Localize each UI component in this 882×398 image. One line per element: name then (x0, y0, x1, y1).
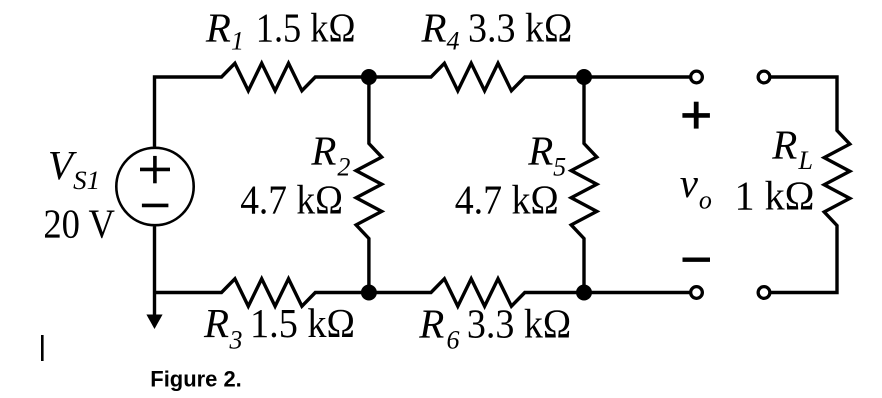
svg-text:1.5 kΩ: 1.5 kΩ (250, 300, 355, 346)
svg-text:S1: S1 (73, 166, 100, 195)
svg-text:R: R (203, 300, 229, 346)
svg-text:1.5 kΩ: 1.5 kΩ (256, 4, 356, 50)
svg-text:R: R (310, 127, 336, 173)
svg-text:20 V: 20 V (43, 201, 115, 247)
svg-text:v: v (680, 160, 699, 206)
svg-text:6: 6 (447, 325, 460, 354)
svg-text:R: R (421, 4, 447, 50)
svg-text:o: o (699, 186, 712, 215)
svg-text:R: R (205, 4, 231, 50)
svg-text:1: 1 (231, 27, 244, 56)
svg-text:4: 4 (447, 27, 460, 56)
svg-text:4.7 kΩ: 4.7 kΩ (240, 177, 343, 223)
svg-text:4.7 kΩ: 4.7 kΩ (455, 177, 559, 223)
svg-text:Figure 2.: Figure 2. (150, 367, 242, 392)
svg-text:R: R (418, 301, 444, 347)
svg-text:R: R (771, 121, 797, 167)
svg-text:L: L (798, 146, 813, 175)
svg-text:3: 3 (229, 325, 243, 354)
svg-text:1 kΩ: 1 kΩ (735, 173, 815, 219)
svg-text:R: R (527, 127, 553, 173)
svg-text:3.3 kΩ: 3.3 kΩ (468, 4, 572, 50)
svg-text:3.3 kΩ: 3.3 kΩ (467, 301, 571, 347)
